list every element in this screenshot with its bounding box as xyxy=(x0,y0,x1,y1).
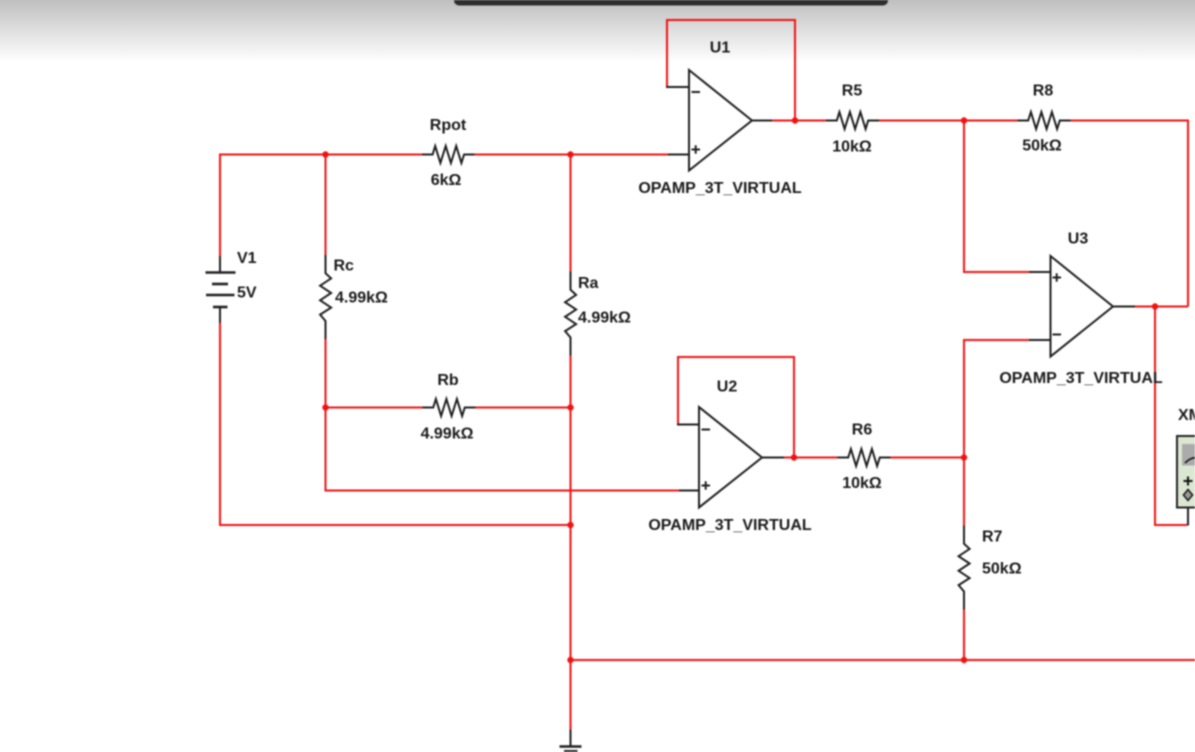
resistor R8 xyxy=(1018,112,1071,129)
svg-text:4.99kΩ: 4.99kΩ xyxy=(578,310,631,327)
wire top rail left xyxy=(220,154,422,156)
svg-text:4.99kΩ: 4.99kΩ xyxy=(335,290,388,307)
wire U3 out down to XM1 xyxy=(1155,307,1187,526)
svg-text:OPAMP_3T_VIRTUAL: OPAMP_3T_VIRTUAL xyxy=(999,370,1163,387)
resistor Ra xyxy=(565,272,576,356)
node V1 bottom xyxy=(567,522,573,528)
wire R6 to node xyxy=(891,457,965,459)
browser chrome bar xyxy=(454,0,888,6)
svg-text:Rpot: Rpot xyxy=(430,117,467,134)
wire top rail right xyxy=(475,154,668,156)
wire V1 branch xyxy=(219,154,221,257)
svg-text:5V: 5V xyxy=(237,285,257,302)
svg-text:Rc: Rc xyxy=(334,258,355,275)
wire Rb right xyxy=(476,407,571,409)
battery V1 xyxy=(206,256,236,323)
svg-text:V1: V1 xyxy=(237,250,257,267)
wire Ra top xyxy=(570,154,572,273)
svg-text:6kΩ: 6kΩ xyxy=(431,172,462,189)
node R5-R8 xyxy=(961,117,967,123)
node U2 output xyxy=(791,454,797,460)
node U1 output xyxy=(792,117,798,123)
wire R7 to bottom rail xyxy=(963,609,965,660)
wire node to U3 plus xyxy=(964,121,1029,273)
svg-text:4.99kΩ: 4.99kΩ xyxy=(421,426,474,443)
resistor Rpot xyxy=(422,146,475,163)
multimeter XM1 xyxy=(1177,436,1195,526)
svg-text:50kΩ: 50kΩ xyxy=(982,561,1022,578)
node R6-R7 xyxy=(961,454,967,460)
resistor Rb xyxy=(423,399,476,416)
wire bottom rail xyxy=(571,659,1195,661)
svg-text:OPAMP_3T_VIRTUAL: OPAMP_3T_VIRTUAL xyxy=(638,180,802,197)
svg-text:50kΩ: 50kΩ xyxy=(1022,138,1062,155)
wire U1 output to R5 xyxy=(772,120,826,122)
wire Rc bottom to U2 plus xyxy=(326,339,680,491)
resistor R6 xyxy=(838,449,891,466)
svg-text:10kΩ: 10kΩ xyxy=(832,139,872,156)
node ground rail left xyxy=(567,657,573,663)
resistor R5 xyxy=(826,112,879,129)
wire U1 feedback loop xyxy=(667,20,795,121)
svg-text:R6: R6 xyxy=(852,422,873,439)
op-amp U2 xyxy=(677,407,784,508)
svg-text:Ra: Ra xyxy=(578,275,599,292)
resistor Rc xyxy=(320,255,331,339)
ground xyxy=(560,730,582,752)
wire node down to R7 xyxy=(963,458,965,527)
node top-Ra xyxy=(567,151,573,157)
svg-text:U3: U3 xyxy=(1068,231,1089,248)
node U3 output xyxy=(1152,303,1158,309)
wire Rb left xyxy=(326,407,423,409)
op-amp U3 xyxy=(1029,256,1135,357)
wire Ra bottom long vertical xyxy=(570,355,572,730)
wire U2 output to R6 xyxy=(784,457,838,459)
node Rb right xyxy=(567,404,573,410)
svg-text:R8: R8 xyxy=(1033,83,1054,100)
wire R8 right down to U3 out xyxy=(1071,121,1189,307)
svg-text:U1: U1 xyxy=(710,40,731,57)
wire U3 out to corner xyxy=(1135,306,1188,308)
svg-text:Rb: Rb xyxy=(437,372,459,389)
wire node up to U3 minus xyxy=(964,340,1029,458)
node top-Rc xyxy=(322,151,328,157)
resistor R7 xyxy=(959,526,970,610)
svg-text:10kΩ: 10kΩ xyxy=(842,475,882,492)
svg-text:OPAMP_3T_VIRTUAL: OPAMP_3T_VIRTUAL xyxy=(648,517,812,534)
node ground rail R7 xyxy=(961,657,967,663)
wire Rc top xyxy=(325,154,327,256)
svg-text:R5: R5 xyxy=(842,83,863,100)
node Rb left xyxy=(322,404,328,410)
op-amp U1 xyxy=(666,70,772,171)
wire U2 feedback loop xyxy=(678,357,794,458)
svg-text:U2: U2 xyxy=(717,379,738,396)
wire R5 to R8 xyxy=(879,120,1018,122)
wire V1 bottom to node xyxy=(220,323,571,526)
svg-text:R7: R7 xyxy=(982,529,1003,546)
svg-text:XM1: XM1 xyxy=(1178,407,1195,424)
